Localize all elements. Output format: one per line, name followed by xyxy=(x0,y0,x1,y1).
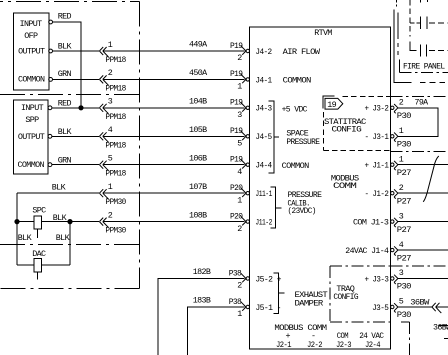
sensor SPC xyxy=(32,206,46,239)
svg-text:2: 2 xyxy=(108,68,113,78)
svg-text:5: 5 xyxy=(108,154,113,164)
pin label J5-1 xyxy=(255,303,281,313)
svg-text:P20: P20 xyxy=(230,211,243,221)
svg-text:106B: 106B xyxy=(189,153,207,163)
svg-text:104B: 104B xyxy=(189,97,207,107)
svg-text:J2-4: J2-4 xyxy=(365,340,381,350)
pin label J11-1 xyxy=(255,189,272,199)
device OFP input box xyxy=(14,13,50,90)
wire 36BW xyxy=(398,298,448,308)
svg-text:P19: P19 xyxy=(230,126,243,136)
wire from P27-3 to edge xyxy=(398,221,448,223)
svg-text:P27: P27 xyxy=(397,168,412,178)
svg-text:CONFIG: CONFIG xyxy=(333,292,358,302)
svg-text:OUTPUT: OUTPUT xyxy=(18,46,45,56)
svg-text:+5 VDC: +5 VDC xyxy=(282,104,308,114)
svg-text:- J1-2: - J1-2 xyxy=(365,189,389,199)
wire dash-dot extension STATITRAC top xyxy=(391,95,448,97)
pin label J1-1 xyxy=(365,161,389,171)
wire: dash-dot zone divider y=244.5 xyxy=(0,244,140,246)
wire BLK 107B left segment xyxy=(17,182,244,193)
wire: dash-dot zone border bottom y=288.5 xyxy=(0,288,140,290)
svg-text:36BW: 36BW xyxy=(433,322,448,332)
wire: dash-dot zone border between boxes y=94 xyxy=(0,94,140,96)
svg-text:- J3-1: - J3-1 xyxy=(365,132,389,142)
device SPP input box xyxy=(14,100,49,174)
pin P30-2 socket J3-2 xyxy=(391,98,412,122)
wire: dash-dot zone border right vertical x=139.5 xyxy=(139,2,141,289)
svg-text:P19: P19 xyxy=(230,69,243,79)
svg-text:1: 1 xyxy=(237,195,242,205)
svg-text:P30: P30 xyxy=(397,140,412,150)
bracket J5-2/J5-1 group xyxy=(274,273,285,314)
svg-text:4: 4 xyxy=(399,240,404,250)
svg-text:1: 1 xyxy=(108,40,113,50)
svg-text:INPUT: INPUT xyxy=(21,103,44,113)
svg-text:J4-4: J4-4 xyxy=(255,161,272,171)
svg-text:J2-2: J2-2 xyxy=(307,340,323,350)
wire dash-dot extension STATITRAC bottom xyxy=(391,151,448,153)
terminal OFP RED xyxy=(49,12,72,24)
svg-text:PPM18: PPM18 xyxy=(105,140,126,150)
bracket J11-1/J11-2 group xyxy=(271,187,282,228)
terminal SPP GRN common xyxy=(48,155,71,166)
label PRESSURE CALIB. (23VDC) xyxy=(288,190,322,216)
label +5 VDC xyxy=(282,104,308,114)
svg-text:1: 1 xyxy=(399,154,404,164)
svg-text:CONFIG: CONFIG xyxy=(332,124,362,134)
svg-text:P30: P30 xyxy=(397,111,412,121)
node junction right on 108B xyxy=(68,220,72,224)
svg-text:J5-1 -: J5-1 - xyxy=(255,303,281,313)
svg-text:4: 4 xyxy=(108,125,113,135)
label - J2-2 xyxy=(307,331,323,350)
svg-text:OUTPUT: OUTPUT xyxy=(18,132,45,142)
svg-text:183B: 183B xyxy=(193,296,211,306)
label MODBUS COMM right side xyxy=(331,173,359,191)
label TRAQ CONFIG xyxy=(333,284,358,302)
wire from P27-1 to edge xyxy=(398,164,448,166)
pin P19-5 socket on RTVM xyxy=(230,126,250,148)
wire DAC branch horizontal xyxy=(17,264,70,266)
svg-text:PPM30: PPM30 xyxy=(105,197,126,207)
svg-text:2: 2 xyxy=(237,281,242,291)
pin label J3-2 xyxy=(365,104,389,114)
svg-text:3: 3 xyxy=(399,211,404,221)
pin P30-5 socket J3-5 xyxy=(391,297,412,321)
wire W2 from top xyxy=(397,12,399,57)
connector plug 3 PPM18 xyxy=(99,97,126,122)
svg-text:BLK: BLK xyxy=(18,233,33,243)
connector plug 36BW chevrons xyxy=(432,303,441,313)
pin P27-4 socket xyxy=(391,240,412,263)
wire dash-dot corner below fire panel xyxy=(400,60,448,73)
wire 79A loop xyxy=(398,98,438,137)
svg-text:J5-2 +: J5-2 + xyxy=(255,274,281,284)
label COM J2-3 xyxy=(336,331,352,350)
svg-text:PRESSURE: PRESSURE xyxy=(286,137,320,147)
svg-text:1: 1 xyxy=(399,126,404,136)
svg-text:COMMON: COMMON xyxy=(282,161,310,171)
svg-text:5: 5 xyxy=(399,297,404,307)
svg-text:GRN: GRN xyxy=(58,69,72,79)
svg-text:RED: RED xyxy=(58,98,72,108)
svg-text:J11-2: J11-2 xyxy=(255,218,272,228)
label AIR FLOW xyxy=(283,47,321,57)
wire 182B xyxy=(158,267,245,355)
controller RTVM box xyxy=(250,27,391,349)
svg-text:COMMON: COMMON xyxy=(18,75,45,85)
svg-text:COMMON: COMMON xyxy=(283,75,312,85)
svg-text:(23VDC): (23VDC) xyxy=(288,206,316,216)
pin P19-1 socket on RTVM xyxy=(230,69,250,91)
pin label J11-2 xyxy=(255,218,272,228)
wire dash-dot extension TRAQ top xyxy=(391,265,448,267)
svg-text:DAC: DAC xyxy=(32,249,46,259)
terminal OFP GRN common xyxy=(49,69,72,81)
wire RED from OFP down to node on 104B xyxy=(53,22,82,108)
svg-text:1: 1 xyxy=(237,82,242,92)
svg-text:P30: P30 xyxy=(397,310,412,320)
label EXHAUST DAMPER xyxy=(295,290,328,309)
pin label J3-1 xyxy=(365,132,389,142)
svg-text:5: 5 xyxy=(237,139,242,149)
label MODBUS COMM bottom xyxy=(274,323,327,333)
pin P19-3 socket on RTVM xyxy=(230,98,250,120)
contact fire panel 1 xyxy=(410,17,448,29)
svg-text:J4-1: J4-1 xyxy=(255,75,272,85)
contact fire panel 2 xyxy=(410,41,448,56)
svg-text:P19: P19 xyxy=(230,155,243,165)
wire from P27-4 to edge xyxy=(398,249,448,251)
svg-text:COMM: COMM xyxy=(333,181,357,191)
svg-text:107B: 107B xyxy=(189,182,207,192)
svg-text:RTVM: RTVM xyxy=(314,28,332,38)
svg-text:PPM18: PPM18 xyxy=(105,55,126,65)
pin label J4-5 xyxy=(255,132,272,142)
box STATITRAC CONFIG dashed xyxy=(323,96,390,150)
connector plug 2 PPM30 xyxy=(99,210,126,235)
svg-text:DAMPER: DAMPER xyxy=(295,299,324,309)
wire 104B xyxy=(52,97,244,108)
pin P30-1 socket J3-1 xyxy=(391,126,412,150)
svg-text:P27: P27 xyxy=(397,225,412,235)
wire dash bottom right TRAQ ext xyxy=(439,325,448,338)
svg-text:P38: P38 xyxy=(229,297,242,307)
svg-text:P30: P30 xyxy=(397,282,412,292)
pin P27-1 socket xyxy=(391,154,412,178)
contact fire panel upper cut xyxy=(421,0,428,3)
svg-text:RED: RED xyxy=(58,12,72,22)
pin P19-2 socket on RTVM xyxy=(230,41,250,63)
pin label J1-3 xyxy=(353,218,389,228)
pin P27-2 socket xyxy=(391,183,412,207)
svg-text:3: 3 xyxy=(399,268,404,278)
svg-text:2: 2 xyxy=(399,183,404,193)
svg-text:J2-3: J2-3 xyxy=(336,340,352,350)
pin P20-1 socket on RTVM xyxy=(230,183,250,205)
wire right vertical BLK to DAC xyxy=(56,222,71,265)
svg-text:J11-1: J11-1 xyxy=(255,189,272,199)
node junction left on 108B xyxy=(15,220,19,224)
svg-text:J2-1: J2-1 xyxy=(276,340,292,350)
label SPACE PRESSURE xyxy=(286,129,320,147)
svg-text:J4-3: J4-3 xyxy=(255,104,272,114)
connector plug 1 PPM18 xyxy=(99,40,126,65)
svg-text:GRN: GRN xyxy=(58,155,72,165)
svg-text:450A: 450A xyxy=(189,68,208,78)
label + J2-1 xyxy=(276,331,292,350)
box TRAQ CONFIG dash-dot xyxy=(330,266,391,322)
wire 105B xyxy=(52,125,244,136)
svg-text:182B: 182B xyxy=(193,267,211,277)
svg-text:J4-2: J4-2 xyxy=(255,47,272,57)
svg-text:19: 19 xyxy=(327,100,336,110)
svg-text:P27: P27 xyxy=(397,196,412,206)
svg-text:P27: P27 xyxy=(397,253,412,263)
pin label J4-4 xyxy=(255,161,272,171)
svg-text:INPUT: INPUT xyxy=(20,19,43,29)
svg-text:3: 3 xyxy=(108,97,113,107)
svg-text:P38: P38 xyxy=(229,268,242,278)
wire left vertical BLK node column xyxy=(17,193,33,265)
svg-text:449A: 449A xyxy=(189,40,208,50)
svg-text:2: 2 xyxy=(108,210,113,220)
wire: dash-dot zone border top-left xyxy=(0,1,140,3)
pin label J4-3 xyxy=(255,104,272,114)
pin label J1-2 xyxy=(365,189,389,199)
svg-text:OFP: OFP xyxy=(24,31,38,41)
pin label J4-2 xyxy=(255,47,272,57)
svg-text:COM J1-3: COM J1-3 xyxy=(353,218,389,228)
svg-text:3: 3 xyxy=(237,110,242,120)
pin label J3-3 xyxy=(365,274,389,284)
svg-text:BLK: BLK xyxy=(58,42,73,52)
pin label J1-4 xyxy=(345,246,389,256)
wire 449A xyxy=(53,40,245,51)
svg-text:108B: 108B xyxy=(189,210,207,220)
svg-text:24VAC J1-4: 24VAC J1-4 xyxy=(345,246,389,256)
label FIRE PANEL xyxy=(403,61,445,71)
wire 450A xyxy=(53,68,245,79)
svg-text:P19: P19 xyxy=(230,41,243,51)
label 36BW lower right xyxy=(433,322,448,332)
pin P38-2 socket on RTVM xyxy=(229,268,250,290)
wire from P30-3 to edge xyxy=(398,278,448,280)
label 24 VAC J2-4 xyxy=(359,331,384,350)
svg-text:2: 2 xyxy=(237,224,242,234)
svg-text:BLK: BLK xyxy=(53,213,68,223)
connector plug 4 PPM18 xyxy=(99,125,126,150)
svg-text:+ J3-2: + J3-2 xyxy=(365,104,389,114)
wire W1 from top to dashed run xyxy=(394,10,448,83)
svg-text:+ J1-1: + J1-1 xyxy=(365,161,389,171)
terminal OFP BLK output xyxy=(49,42,73,53)
terminal SPP BLK output xyxy=(48,127,72,138)
sensor DAC xyxy=(32,249,46,280)
svg-text:2: 2 xyxy=(399,98,404,108)
svg-text:SPP: SPP xyxy=(25,115,39,125)
wire 106B xyxy=(52,153,244,164)
svg-text:1: 1 xyxy=(108,182,113,192)
svg-text:PPM18: PPM18 xyxy=(105,112,126,122)
box FIRE PANEL dashed edge xyxy=(409,0,411,37)
svg-text:J3-5: J3-5 xyxy=(372,303,389,313)
svg-text:P19: P19 xyxy=(230,98,243,108)
wire BLK 108B through SPC xyxy=(17,210,244,223)
wire 183B xyxy=(188,296,245,355)
svg-text:105B: 105B xyxy=(189,125,207,135)
svg-text:MODBUS COMM: MODBUS COMM xyxy=(274,323,327,333)
svg-text:SPC: SPC xyxy=(32,206,46,216)
svg-text:AIR FLOW: AIR FLOW xyxy=(283,47,321,57)
note flag 19 xyxy=(323,96,343,110)
label STATITRAC CONFIG xyxy=(324,117,366,134)
pin P38-1 socket on RTVM xyxy=(229,297,250,319)
svg-text:J4-5: J4-5 xyxy=(255,132,272,142)
svg-text:PPM30: PPM30 xyxy=(105,226,126,236)
connector plug 1 PPM30 xyxy=(99,182,126,207)
label COMMON J4-4 xyxy=(282,161,310,171)
wire from P27-2 to edge xyxy=(398,192,448,194)
pin P20-2 socket on RTVM xyxy=(230,211,250,233)
svg-text:BLK: BLK xyxy=(58,127,73,137)
connector plug 5 PPM18 xyxy=(99,154,126,179)
connector plug 2 PPM18 xyxy=(99,68,126,93)
svg-text:4: 4 xyxy=(237,167,242,177)
svg-text:P20: P20 xyxy=(230,183,243,193)
pin label J5-2 xyxy=(255,274,281,284)
pin P30-3 socket J3-3 xyxy=(391,268,412,292)
node junction RED/104B xyxy=(79,106,83,110)
svg-text:PPM18: PPM18 xyxy=(105,169,126,179)
svg-text:BLK: BLK xyxy=(56,233,71,243)
pin label J4-1 xyxy=(255,75,272,85)
pin P27-3 socket xyxy=(391,211,412,235)
svg-text:1: 1 xyxy=(237,309,242,319)
svg-text:COMMON: COMMON xyxy=(18,160,45,170)
svg-text:36BW: 36BW xyxy=(410,298,430,308)
svg-text:2: 2 xyxy=(237,53,242,63)
wire dash-dot corner bottom right xyxy=(401,322,410,355)
svg-text:+ J3-3: + J3-3 xyxy=(365,274,389,284)
terminal SPP RED xyxy=(48,98,71,109)
bracket J4-3/J4-5/J4-4 group xyxy=(269,101,280,173)
svg-text:BLK: BLK xyxy=(52,182,67,192)
pin P19-4 socket on RTVM xyxy=(230,155,250,177)
svg-text:PPM18: PPM18 xyxy=(105,83,126,93)
svg-text:79A: 79A xyxy=(415,98,430,108)
cable slash mark twisted pair xyxy=(423,156,439,202)
label COMMON J4-1 xyxy=(283,75,312,85)
wire top dash bits xyxy=(396,0,398,6)
pin label J3-5 xyxy=(372,303,389,313)
svg-text:FIRE PANEL: FIRE PANEL xyxy=(403,61,445,71)
